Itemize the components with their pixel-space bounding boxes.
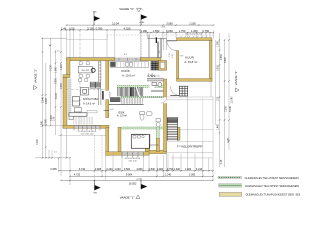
stair west wall <box>164 79 167 152</box>
dimension line top row 2 right <box>140 32 213 34</box>
svg-text:11.04: 11.04 <box>112 21 119 25</box>
svg-text:OLEMASOLEV TELLISTEST SEIN/VAH: OLEMASOLEV TELLISTEST SEIN/VAHESEIN. SEI… <box>245 184 300 188</box>
left wall jog <box>63 75 70 78</box>
section flag bottom-left <box>94 180 96 190</box>
svg-text:0.240: 0.240 <box>106 168 113 171</box>
svg-text:4.320: 4.320 <box>124 26 131 30</box>
svg-text:0.200: 0.200 <box>217 64 219 70</box>
door sill esik <box>104 109 109 111</box>
bottom-left wall <box>63 125 109 128</box>
dimension line top row 1 <box>67 24 214 26</box>
hatch strip along left wall <box>68 79 71 117</box>
svg-text:3.300: 3.300 <box>37 138 39 144</box>
shower room enclosure <box>131 134 149 148</box>
hall west wall lines <box>160 38 161 58</box>
svg-text:0.500: 0.500 <box>149 168 156 171</box>
svg-text:4.100: 4.100 <box>56 92 58 98</box>
svg-text:1.040: 1.040 <box>114 168 121 171</box>
svg-text:16.052: 16.052 <box>129 182 137 185</box>
svg-text:KUUR: KUUR <box>185 55 194 59</box>
divider wall upper <box>106 61 109 90</box>
svg-text:KÖÖK: KÖÖK <box>121 69 130 73</box>
svg-text:0.9: 0.9 <box>159 51 161 54</box>
terrace edge line left <box>67 39 108 41</box>
svg-text:1.500: 1.500 <box>189 21 196 25</box>
wall top-center exterior <box>140 58 161 61</box>
chairs <box>79 62 82 65</box>
small table room left <box>81 88 89 96</box>
fireplace striped blocks <box>90 82 95 88</box>
svg-text:3.130: 3.130 <box>51 64 53 70</box>
wardrobe lower-left room <box>73 97 80 107</box>
window pane dim texts below <box>73 129 100 130</box>
svg-text:2.10: 2.10 <box>172 54 174 58</box>
svg-text:+0,00: +0,00 <box>136 179 142 181</box>
entrance door arc <box>167 41 177 51</box>
window W2 in bottom-left wall <box>74 126 100 129</box>
svg-text:8.040: 8.040 <box>230 105 232 111</box>
svg-text:0.26: 0.26 <box>228 138 230 143</box>
svg-text:1.540: 1.540 <box>41 120 43 126</box>
door gap stair wall <box>163 97 167 103</box>
svg-text:0.55 0.55 0.55 0.55 0.55: 0.55 0.55 0.55 0.55 0.55 <box>185 33 202 35</box>
svg-text:1.380: 1.380 <box>217 40 219 46</box>
sink <box>126 62 129 66</box>
centerline dashed vertical <box>79 30 81 125</box>
KLAR top window ticks <box>180 36 206 37</box>
kitchen counter <box>110 62 149 68</box>
svg-text:1.980: 1.980 <box>56 66 58 72</box>
svg-text:3.210: 3.210 <box>196 168 203 171</box>
wall seg right of bath <box>156 138 159 152</box>
svg-text:A: 10,6 m²: A: 10,6 m² <box>122 73 135 77</box>
svg-text:1.400: 1.400 <box>174 168 181 171</box>
svg-text:0.905: 0.905 <box>95 168 102 171</box>
svg-text:3.050: 3.050 <box>189 174 196 177</box>
bottom wall center <box>106 152 150 155</box>
porch steps grid <box>179 86 187 96</box>
dark line hall west <box>157 42 159 58</box>
side room lines <box>150 134 159 148</box>
stair bottom line <box>109 104 144 106</box>
extension lines from top dims <box>67 30 74 58</box>
corner post <box>145 146 150 152</box>
svg-text:0.905: 0.905 <box>50 168 57 171</box>
svg-text:0.750: 0.750 <box>202 29 209 33</box>
view marker triangle left <box>34 86 38 90</box>
stair break mark <box>135 86 140 97</box>
svg-text:0.60 0.60 0.60: 0.60 0.60 0.60 <box>81 133 94 135</box>
brick wall esik south <box>121 127 163 129</box>
bottom dim line B4 <box>61 179 213 181</box>
svg-text:0.900: 0.900 <box>157 168 164 171</box>
svg-text:3.940: 3.940 <box>43 96 45 102</box>
svg-text:VAADE "1": VAADE "1" <box>120 195 135 199</box>
svg-text:4.720: 4.720 <box>74 174 81 177</box>
bottom-left dim cluster <box>35 157 70 159</box>
wall top-left exterior <box>67 58 115 61</box>
ground lines right <box>150 96 214 98</box>
svg-text:A: 14,6 m²: A: 14,6 m² <box>83 102 95 106</box>
cellar stair treads <box>167 117 177 122</box>
chimney flue tan <box>159 61 167 71</box>
svg-text:1.46: 1.46 <box>61 26 67 30</box>
brick wall mid <box>121 96 164 97</box>
dimension line top row 2 left <box>61 29 140 31</box>
divider wall mid <box>106 100 109 118</box>
chimney flue hatched <box>151 62 159 71</box>
section flag top-left <box>93 12 95 26</box>
svg-text:WC 1,9 m²: WC 1,9 m² <box>152 75 161 78</box>
svg-text:0.500: 0.500 <box>56 77 58 83</box>
svg-text:4.800: 4.800 <box>225 56 227 62</box>
svg-text:SÖÖGITUBA: SÖÖGITUBA <box>83 97 99 101</box>
interior stair lower flight <box>122 98 143 104</box>
svg-text:KELDRITREPP: KELDRITREPP <box>182 145 203 149</box>
KLAR bottom wall <box>177 79 213 82</box>
svg-text:0.26: 0.26 <box>221 159 223 164</box>
svg-text:4.650: 4.650 <box>221 53 223 59</box>
svg-text:2,1: 2,1 <box>151 76 153 78</box>
bottom dim line B3 <box>70 175 213 177</box>
divider door leaf black <box>102 91 103 100</box>
svg-text:3.060: 3.060 <box>45 118 47 124</box>
svg-text:3.060: 3.060 <box>166 21 173 25</box>
left dim verticals <box>42 38 44 158</box>
brick wall room south <box>117 85 149 87</box>
stove circle <box>91 68 95 72</box>
svg-text:A: 3,9 m²: A: 3,9 m² <box>117 115 127 118</box>
legend row 2 swatch <box>219 184 242 187</box>
basin <box>147 112 153 116</box>
svg-text:0.50: 0.50 <box>69 26 75 30</box>
bottom extension verticals <box>58 158 60 171</box>
svg-text:3.060: 3.060 <box>166 29 173 33</box>
svg-text:3.150: 3.150 <box>87 26 94 30</box>
left dim ticks <box>42 45 62 148</box>
dining table <box>78 66 92 73</box>
left wall lower <box>63 78 67 129</box>
hall north wall line <box>148 37 167 39</box>
hall south wall lines <box>147 78 164 81</box>
right dim verticals <box>210 45 212 97</box>
keldritrepp label + leader <box>178 145 182 148</box>
svg-text:0.395: 0.395 <box>96 26 103 30</box>
svg-text:VAADE "3": VAADE "3" <box>119 7 134 11</box>
KLAR left wall <box>177 51 179 79</box>
svg-text:OLEMASOLEV TELLISTEST SEIN/VAH: OLEMASOLEV TELLISTEST SEIN/VAHESEIN. SEI… <box>245 176 301 180</box>
svg-text:1.90: 1.90 <box>169 53 171 57</box>
svg-text:1.460: 1.460 <box>217 123 219 129</box>
svg-text:VAADE "2": VAADE "2" <box>33 69 37 84</box>
dining east wall lines <box>99 61 101 82</box>
clutter specks hall <box>148 74 156 77</box>
floor stripes lower-left room <box>74 117 93 125</box>
view marker triangle top <box>137 8 141 12</box>
svg-text:3.740: 3.740 <box>79 168 86 171</box>
counter left room <box>74 108 81 112</box>
WC fixtures hall <box>152 82 156 85</box>
toilet <box>140 112 145 115</box>
kitchen dark block <box>110 97 120 101</box>
svg-text:9.904: 9.904 <box>126 174 133 177</box>
interior stair treads <box>118 87 143 96</box>
svg-text:0.60 0.60: 0.60 0.60 <box>129 161 137 163</box>
brick wall vertical <box>156 127 159 138</box>
svg-text:3.300: 3.300 <box>225 105 227 111</box>
svg-text:0.500: 0.500 <box>124 168 131 171</box>
counter lower-left room <box>69 113 87 116</box>
right dim ticks <box>219 39 230 142</box>
svg-text:1.96: 1.96 <box>53 116 55 121</box>
svg-text:1.750: 1.750 <box>179 29 186 33</box>
roof overhang dashed <box>140 30 142 59</box>
KLAR right wall <box>209 41 212 82</box>
svg-text:1.900: 1.900 <box>61 63 63 69</box>
svg-text:1.400: 1.400 <box>185 168 192 171</box>
window W3 in bottom wall <box>122 152 143 155</box>
section flag bottom-right <box>140 180 142 189</box>
svg-text:1.0: 1.0 <box>54 151 57 153</box>
svg-text:VAADE "4": VAADE "4" <box>234 71 238 86</box>
shower fixtures <box>133 135 136 138</box>
plaster line above wall <box>67 56 162 58</box>
svg-text:11.040: 11.040 <box>232 96 234 104</box>
bottom wall right segment <box>149 150 167 153</box>
stove dark <box>110 62 115 67</box>
svg-text:1.560: 1.560 <box>153 29 160 33</box>
KLAR top wall <box>177 38 213 41</box>
svg-text:1.50: 1.50 <box>217 96 219 101</box>
legend row 3 swatch <box>219 192 241 196</box>
svg-text:4.800: 4.800 <box>136 168 143 171</box>
svg-text:17×0,18: 17×0,18 <box>108 92 111 99</box>
svg-text:A: 15,8 m²: A: 15,8 m² <box>184 60 197 64</box>
svg-text:1.195: 1.195 <box>161 26 166 28</box>
svg-text:4.060: 4.060 <box>46 97 48 103</box>
left wall upper <box>67 58 71 75</box>
window W3 pane ticks <box>121 156 144 157</box>
svg-text:1.450: 1.450 <box>191 29 198 33</box>
window W1 in top wall <box>115 58 140 61</box>
bottom dim line B2 <box>59 170 213 172</box>
door post (black) <box>156 37 157 43</box>
legend row 1 swatch (brick hatch thin) <box>218 176 241 178</box>
svg-text:+0,00: +0,00 <box>139 22 145 24</box>
svg-text:OLEMASOLEV TUHAPLOKKIDEST SEIN: OLEMASOLEV TUHAPLOKKIDEST SEIN. SEINAD <box>246 193 301 197</box>
section flag top-right <box>140 15 142 26</box>
divider wall low <box>106 128 109 156</box>
svg-text:1.5: 1.5 <box>57 51 60 53</box>
svg-text:1.240: 1.240 <box>165 174 172 177</box>
svg-text:900×180: 900×180 <box>81 69 88 72</box>
stair east wall <box>178 127 180 140</box>
small fixtures near stair wall <box>156 119 160 122</box>
porch door arc <box>171 87 180 96</box>
KLAR room label <box>180 55 183 57</box>
bathroom west wall <box>118 127 121 152</box>
svg-text:+0,02: +0,02 <box>109 109 113 111</box>
